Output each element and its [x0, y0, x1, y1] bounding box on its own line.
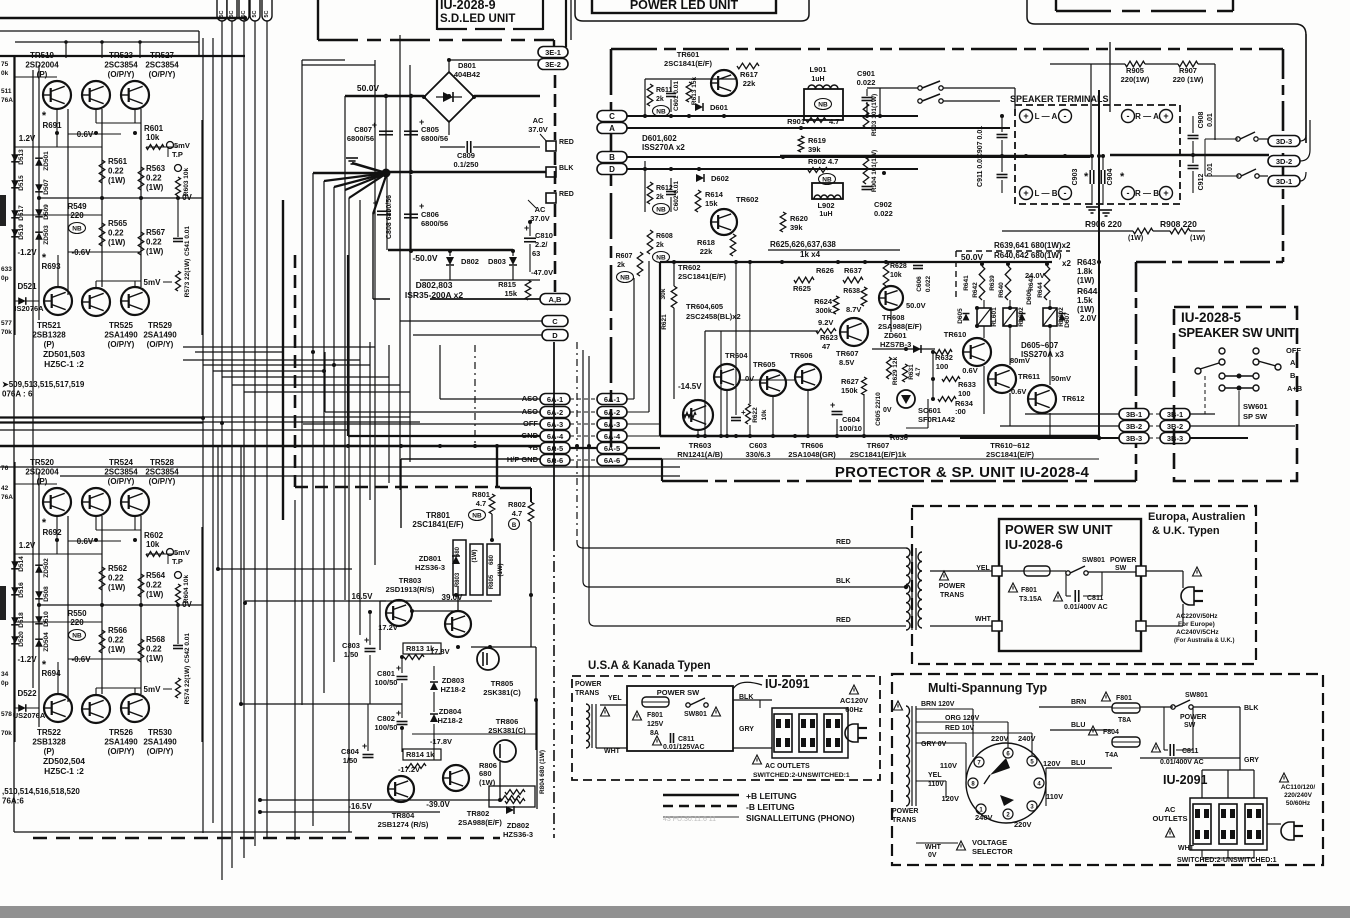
svg-text:3D-2: 3D-2 — [1276, 157, 1292, 166]
svg-text:GRY 0V: GRY 0V — [921, 741, 947, 748]
svg-text:(1W): (1W) — [108, 583, 126, 592]
svg-text:C803: C803 — [342, 641, 360, 650]
svg-text:2SK381(C): 2SK381(C) — [483, 688, 521, 697]
svg-text:R640: R640 — [998, 282, 1005, 298]
svg-text:(1W): (1W) — [146, 183, 164, 192]
svg-text:3D-1: 3D-1 — [1276, 177, 1292, 186]
svg-text:TR610: TR610 — [944, 330, 967, 339]
svg-text:R906 220: R906 220 — [1085, 219, 1122, 229]
svg-text:D517: D517 — [18, 205, 25, 221]
svg-text:2SC3854: 2SC3854 — [104, 61, 138, 70]
svg-text:0.22: 0.22 — [146, 581, 162, 590]
svg-text:R643: R643 — [1077, 258, 1097, 267]
svg-text:5mV: 5mV — [144, 278, 162, 287]
svg-text:ZD804: ZD804 — [439, 707, 462, 716]
svg-text:NB: NB — [656, 255, 666, 262]
svg-text:TR801: TR801 — [426, 511, 451, 520]
svg-text:POWER SW UNIT: POWER SW UNIT — [1005, 522, 1113, 537]
svg-text:TR603: TR603 — [689, 441, 712, 450]
svg-text:D514: D514 — [18, 556, 25, 572]
svg-text:ZD504: ZD504 — [43, 632, 50, 652]
svg-text:+: + — [364, 635, 369, 645]
svg-text:0p: 0p — [1, 680, 9, 687]
svg-text:R601: R601 — [144, 124, 164, 133]
svg-text:9.2V: 9.2V — [818, 318, 833, 327]
svg-text:SW601: SW601 — [1243, 402, 1268, 411]
svg-text:R692: R692 — [42, 528, 62, 537]
svg-text:-1.2V: -1.2V — [17, 248, 37, 257]
svg-text:C: C — [552, 317, 558, 326]
svg-text:R549: R549 — [67, 202, 87, 211]
svg-text:R — B: R — B — [1135, 189, 1159, 198]
svg-text:+: + — [373, 198, 378, 208]
svg-text:R562: R562 — [108, 564, 128, 573]
svg-text:50.0V: 50.0V — [906, 301, 926, 310]
svg-text:-39.0V: -39.0V — [426, 800, 450, 809]
svg-text:+: + — [830, 400, 835, 410]
svg-text:D518: D518 — [18, 612, 25, 628]
svg-text:R566: R566 — [108, 626, 128, 635]
svg-text:F804: F804 — [1103, 729, 1119, 736]
svg-text:R617: R617 — [740, 70, 758, 79]
svg-text:D801: D801 — [458, 61, 476, 70]
svg-text:*: * — [42, 659, 47, 671]
svg-text:R627: R627 — [841, 377, 859, 386]
svg-text:+B LEITUNG: +B LEITUNG — [746, 791, 797, 801]
svg-text:Multi-Spannung Typ: Multi-Spannung Typ — [928, 681, 1048, 695]
svg-text:POWER: POWER — [892, 808, 918, 815]
svg-text:R607: R607 — [616, 253, 633, 260]
svg-text:C605 22/10: C605 22/10 — [875, 392, 882, 426]
svg-text:RED: RED — [836, 539, 851, 546]
svg-text:1/50: 1/50 — [344, 650, 359, 659]
svg-text:R — A: R — A — [1135, 112, 1159, 121]
svg-text:(1W): (1W) — [472, 550, 478, 563]
svg-text:NB: NB — [472, 513, 482, 520]
svg-text:3B-2: 3B-2 — [1126, 422, 1142, 431]
svg-text:TR523: TR523 — [109, 51, 134, 60]
svg-text:R623: R623 — [820, 333, 838, 342]
svg-text:U.S.A & Kanada Typen: U.S.A & Kanada Typen — [588, 660, 711, 672]
svg-text:R561: R561 — [108, 157, 128, 166]
svg-text:1k x4: 1k x4 — [800, 250, 821, 259]
svg-text:0.01: 0.01 — [1207, 163, 1214, 177]
svg-text:2SC1841(E/F): 2SC1841(E/F) — [678, 272, 726, 281]
svg-text:L901: L901 — [809, 65, 826, 74]
svg-text:B: B — [512, 523, 517, 529]
svg-text:ZD802: ZD802 — [507, 821, 530, 830]
svg-text:50mV: 50mV — [1051, 374, 1071, 383]
svg-text:TR607: TR607 — [867, 441, 890, 450]
svg-text:OUTLETS: OUTLETS — [1153, 814, 1188, 823]
svg-text:R613 15k: R613 15k — [691, 77, 698, 106]
svg-text:C806: C806 — [421, 210, 439, 219]
svg-text:TR606: TR606 — [801, 441, 824, 450]
svg-text:+: + — [1163, 188, 1168, 198]
svg-text:1.5k: 1.5k — [1077, 296, 1093, 305]
svg-text:WHT: WHT — [604, 748, 621, 755]
svg-text:*: * — [1084, 171, 1089, 183]
svg-text:IU-2091: IU-2091 — [1163, 773, 1208, 787]
svg-text:1uH: 1uH — [819, 211, 832, 218]
svg-text:2SB1328: 2SB1328 — [32, 738, 66, 747]
svg-text:4.7: 4.7 — [915, 367, 922, 376]
svg-text:TR526: TR526 — [109, 728, 134, 737]
svg-text:TR610~612: TR610~612 — [990, 441, 1029, 450]
svg-text:R814 1k: R814 1k — [406, 750, 435, 759]
svg-text:(P): (P) — [44, 340, 55, 349]
svg-text:2k: 2k — [656, 96, 664, 103]
svg-text:0V: 0V — [883, 407, 892, 414]
svg-text:37.0V: 37.0V — [528, 125, 548, 134]
svg-text:(1W): (1W) — [146, 654, 164, 663]
svg-text:(O/P/Y): (O/P/Y) — [149, 477, 176, 486]
svg-text:220(1W): 220(1W) — [1121, 75, 1150, 84]
svg-text:-47.0V: -47.0V — [531, 268, 553, 277]
svg-text:D516: D516 — [18, 582, 25, 598]
svg-text:C904: C904 — [1107, 169, 1114, 186]
svg-text:C804: C804 — [341, 747, 360, 756]
svg-text:60Hz: 60Hz — [845, 705, 863, 714]
svg-text:RED: RED — [559, 139, 574, 146]
svg-text:TR602: TR602 — [678, 263, 701, 272]
svg-text:50.0V: 50.0V — [961, 252, 984, 262]
svg-text:D601,602: D601,602 — [642, 134, 677, 143]
svg-text:R629 12k: R629 12k — [892, 357, 899, 386]
svg-text:(O/P/Y): (O/P/Y) — [147, 747, 174, 756]
svg-text:R805: R805 — [489, 574, 495, 589]
svg-text:6A-4: 6A-4 — [604, 432, 621, 441]
svg-text:(1W): (1W) — [1128, 235, 1143, 242]
svg-text:2SC3854: 2SC3854 — [104, 468, 138, 477]
svg-text:IS2076A: IS2076A — [14, 304, 44, 313]
svg-text:HZ18-2: HZ18-2 — [437, 716, 462, 725]
svg-text:17.2V: 17.2V — [378, 623, 398, 632]
svg-text:R639,641 680(1W)x2: R639,641 680(1W)x2 — [994, 241, 1071, 250]
svg-text:TR525: TR525 — [109, 321, 134, 330]
svg-text:2SC3854: 2SC3854 — [145, 61, 179, 70]
svg-text:C907 0.01: C907 0.01 — [977, 126, 984, 158]
svg-text:2SC3854: 2SC3854 — [145, 468, 179, 477]
svg-text:+: + — [396, 663, 401, 673]
svg-text:WHT: WHT — [975, 616, 992, 623]
svg-text:0.22: 0.22 — [108, 167, 124, 176]
svg-text:TR604,605: TR604,605 — [686, 302, 723, 311]
svg-text:SWITCHED:2-UNSWITCHED:1: SWITCHED:2-UNSWITCHED:1 — [753, 772, 850, 779]
svg-text:OFF: OFF — [523, 419, 538, 428]
svg-text:6800/56: 6800/56 — [347, 134, 374, 143]
svg-text:220/240V: 220/240V — [1284, 792, 1312, 799]
svg-text:511: 511 — [1, 88, 12, 95]
svg-text:AC: AC — [535, 205, 546, 214]
svg-text:F801: F801 — [647, 712, 663, 719]
svg-text:HZS36-3: HZS36-3 — [415, 563, 445, 572]
svg-text:0.22: 0.22 — [108, 229, 124, 238]
svg-text:C541 0.01: C541 0.01 — [184, 226, 191, 256]
svg-text:D515: D515 — [18, 175, 25, 191]
svg-text:D802,803: D802,803 — [416, 280, 453, 290]
svg-text:-B LEITUNG: -B LEITUNG — [746, 802, 795, 812]
svg-text:34: 34 — [1, 671, 9, 678]
svg-text:2SD2004: 2SD2004 — [25, 61, 59, 70]
svg-text:C911 0.01: C911 0.01 — [977, 155, 984, 187]
svg-text:D513: D513 — [18, 149, 25, 165]
svg-text:D607: D607 — [1064, 312, 1071, 328]
svg-text:RED 10V: RED 10V — [945, 725, 975, 732]
svg-text:8A: 8A — [650, 730, 659, 737]
svg-text:R908 220: R908 220 — [1160, 219, 1197, 229]
svg-text:220V: 220V — [1014, 820, 1032, 829]
svg-text:43 FU:30:11:6 11: 43 FU:30:11:6 11 — [663, 816, 716, 823]
svg-text:D606: D606 — [1026, 289, 1033, 305]
svg-text:*: * — [42, 110, 47, 122]
svg-text:NB: NB — [72, 633, 82, 640]
svg-text:R804 680 (1W): R804 680 (1W) — [539, 750, 546, 794]
svg-text:5C: 5C — [252, 10, 258, 17]
svg-text:R622: R622 — [752, 407, 759, 423]
svg-text:BLK: BLK — [559, 165, 573, 172]
svg-text:ISR35-200A x2: ISR35-200A x2 — [405, 290, 464, 300]
svg-text:(1W): (1W) — [498, 564, 504, 577]
svg-text:100/50: 100/50 — [375, 678, 398, 687]
svg-text:TR602: TR602 — [736, 195, 759, 204]
svg-text:D510: D510 — [43, 611, 50, 627]
svg-text:BLU: BLU — [1071, 722, 1085, 729]
svg-text:ZD601: ZD601 — [884, 331, 907, 340]
svg-text:2SB1328: 2SB1328 — [32, 331, 66, 340]
svg-text:B: B — [1290, 371, 1296, 380]
svg-text:AC110/120/: AC110/120/ — [1281, 784, 1316, 791]
svg-text:C: C — [609, 112, 615, 121]
svg-text:C604: C604 — [842, 415, 861, 424]
svg-text:NB: NB — [620, 275, 630, 282]
svg-text:578: 578 — [1, 711, 12, 718]
svg-text:TRANS: TRANS — [940, 592, 964, 599]
svg-text:70k: 70k — [1, 329, 12, 336]
svg-text:0p: 0p — [1, 275, 9, 282]
svg-text:SF0R1A42: SF0R1A42 — [918, 415, 955, 424]
svg-text:0k: 0k — [1, 70, 9, 77]
svg-text:2.2/: 2.2/ — [535, 240, 548, 249]
svg-text:D520: D520 — [18, 631, 25, 647]
svg-text:-14.5V: -14.5V — [678, 382, 702, 391]
svg-text:TR530: TR530 — [148, 728, 173, 737]
svg-text:76A:6: 76A:6 — [2, 797, 24, 806]
svg-text:2k: 2k — [617, 262, 625, 269]
svg-text:YEL: YEL — [608, 695, 622, 702]
svg-text:120V: 120V — [1043, 759, 1061, 768]
svg-text:47: 47 — [822, 342, 830, 351]
svg-text:2SA988(E/F): 2SA988(E/F) — [878, 322, 922, 331]
svg-text:ORG 120V: ORG 120V — [945, 715, 980, 722]
svg-text:SIGNALLEITUNG (PHONO): SIGNALLEITUNG (PHONO) — [746, 813, 855, 823]
svg-text:D601: D601 — [710, 103, 728, 112]
svg-text:R604 10k: R604 10k — [183, 575, 190, 604]
svg-text:R625,626,637,638: R625,626,637,638 — [770, 240, 836, 249]
svg-text:R639: R639 — [989, 275, 996, 291]
svg-text:4.7: 4.7 — [476, 499, 486, 508]
svg-text:0.22: 0.22 — [146, 174, 162, 183]
svg-text:125V: 125V — [647, 721, 664, 728]
svg-text:R567: R567 — [146, 228, 166, 237]
svg-text:R626: R626 — [816, 266, 834, 275]
svg-text:110V: 110V — [1046, 792, 1063, 801]
svg-text:(1W): (1W) — [1190, 235, 1205, 242]
svg-text:TR604: TR604 — [725, 351, 748, 360]
svg-text:0.01/400V AC: 0.01/400V AC — [1064, 604, 1108, 611]
svg-text:2SD2004: 2SD2004 — [25, 468, 59, 477]
svg-text:(1W): (1W) — [108, 645, 126, 654]
svg-text:C902: C902 — [874, 200, 892, 209]
svg-text:-: - — [1064, 111, 1067, 121]
svg-text:-17.8V: -17.8V — [430, 737, 452, 746]
svg-text:C811: C811 — [1182, 748, 1198, 755]
svg-text:16.5V: 16.5V — [352, 592, 374, 601]
svg-text:+B: +B — [528, 443, 538, 452]
svg-text:110V: 110V — [940, 761, 957, 770]
svg-text:IU-2028-9: IU-2028-9 — [440, 0, 496, 12]
svg-text:AC: AC — [1165, 805, 1176, 814]
svg-text:2SA1490: 2SA1490 — [104, 331, 138, 340]
svg-text:0.1/250: 0.1/250 — [453, 160, 478, 169]
svg-text:2SC1841(E/F): 2SC1841(E/F) — [664, 59, 712, 68]
svg-text:3E-2: 3E-2 — [545, 60, 561, 69]
svg-text:6800/56: 6800/56 — [421, 134, 448, 143]
svg-text:6A-1: 6A-1 — [547, 395, 563, 404]
svg-text:5C: 5C — [229, 10, 235, 17]
svg-text:680: 680 — [479, 769, 492, 778]
svg-text:TR522: TR522 — [37, 728, 62, 737]
svg-text:D519: D519 — [18, 224, 25, 240]
svg-text:BLK: BLK — [836, 578, 850, 585]
svg-text:RED: RED — [836, 617, 851, 624]
svg-text:R802: R802 — [508, 500, 526, 509]
svg-text:*: * — [1120, 171, 1125, 183]
svg-text:A+B: A+B — [1287, 384, 1303, 393]
svg-text:R573 22(1W): R573 22(1W) — [184, 259, 191, 298]
svg-text:WHT: WHT — [925, 844, 942, 851]
svg-text:TR612: TR612 — [1062, 394, 1085, 403]
svg-text:3B-3: 3B-3 — [1126, 434, 1142, 443]
svg-text:ZD502,504: ZD502,504 — [43, 756, 85, 766]
svg-text:R564: R564 — [146, 571, 166, 580]
svg-text:C807: C807 — [354, 125, 372, 134]
svg-text:AC220V/50Hz: AC220V/50Hz — [1176, 613, 1218, 620]
svg-text:5C: 5C — [264, 10, 270, 17]
svg-text:GRY: GRY — [1244, 757, 1259, 764]
svg-text:BRN 120V: BRN 120V — [921, 701, 955, 708]
svg-text:0.22: 0.22 — [108, 636, 124, 645]
svg-text:R628: R628 — [890, 263, 907, 270]
svg-text:R801: R801 — [472, 490, 490, 499]
svg-text:SW801: SW801 — [1082, 557, 1105, 564]
svg-text:0.6V: 0.6V — [962, 366, 977, 375]
svg-text:2SC1841(E/F): 2SC1841(E/F) — [986, 450, 1034, 459]
svg-text:R618: R618 — [697, 238, 715, 247]
svg-text:SP SW: SP SW — [1243, 412, 1268, 421]
svg-text:ZD501: ZD501 — [43, 151, 50, 171]
svg-text:0.01: 0.01 — [1207, 113, 1214, 127]
svg-text:ASO: ASO — [522, 394, 538, 403]
svg-text:TR607: TR607 — [836, 349, 859, 358]
svg-text:100: 100 — [958, 389, 971, 398]
svg-text:POWER LED UNIT: POWER LED UNIT — [630, 0, 739, 12]
svg-text:D602: D602 — [711, 174, 729, 183]
svg-text:TRANS: TRANS — [575, 690, 599, 697]
svg-text:2SA1490: 2SA1490 — [143, 331, 177, 340]
svg-text:IU-2091: IU-2091 — [765, 677, 810, 691]
svg-text:22k: 22k — [743, 79, 756, 88]
svg-text:39k: 39k — [808, 145, 821, 154]
svg-text:A: A — [609, 124, 615, 133]
svg-text:SPEAKER TERMINALS: SPEAKER TERMINALS — [1010, 94, 1109, 104]
svg-text:D521: D521 — [17, 282, 37, 291]
svg-text:L — A: L — A — [1035, 112, 1058, 121]
svg-text:80mV: 80mV — [1010, 356, 1030, 365]
svg-text:TR528: TR528 — [150, 458, 175, 467]
svg-text:L902: L902 — [817, 201, 834, 210]
svg-text:R905: R905 — [1126, 66, 1144, 75]
svg-text:R803: R803 — [455, 572, 461, 587]
svg-text:ASO: ASO — [522, 407, 538, 416]
svg-text:76A: 76A — [1, 494, 13, 501]
svg-text:BLU: BLU — [1071, 760, 1085, 767]
svg-text:F801: F801 — [1021, 587, 1037, 594]
svg-text:22k: 22k — [700, 247, 713, 256]
svg-text:0.022: 0.022 — [857, 78, 876, 87]
svg-text:5mV: 5mV — [174, 141, 190, 150]
svg-text:R565: R565 — [108, 219, 128, 228]
svg-text:220V: 220V — [991, 734, 1009, 743]
svg-text:For Europe): For Europe) — [1178, 621, 1215, 628]
svg-text:HZS36-3: HZS36-3 — [503, 830, 533, 839]
svg-text:0.6V: 0.6V — [1011, 387, 1026, 396]
svg-text:WHT: WHT — [1178, 845, 1195, 852]
svg-text:100: 100 — [936, 362, 949, 371]
svg-text:-: - — [1127, 111, 1130, 121]
svg-text:R901: R901 — [787, 117, 805, 126]
svg-text:HZ5C-1 :2: HZ5C-1 :2 — [44, 359, 84, 369]
svg-text:L — B: L — B — [1035, 189, 1058, 198]
svg-text:B: B — [609, 153, 615, 162]
svg-text:3B-1: 3B-1 — [1126, 410, 1142, 419]
svg-text:-: - — [1127, 188, 1130, 198]
svg-text:D508: D508 — [43, 586, 50, 602]
svg-text:YEL: YEL — [928, 772, 942, 779]
svg-text:HZ18-2: HZ18-2 — [440, 685, 465, 694]
svg-text:R632: R632 — [935, 353, 953, 362]
svg-text:SW801: SW801 — [684, 711, 707, 718]
svg-text:ISS270A x2: ISS270A x2 — [642, 143, 685, 152]
svg-text:C601 0.01: C601 0.01 — [673, 81, 680, 111]
svg-text:4.7: 4.7 — [829, 117, 839, 126]
svg-text:10k: 10k — [146, 133, 160, 142]
svg-text:0.22: 0.22 — [146, 238, 162, 247]
svg-text:76A: 76A — [1, 97, 13, 104]
svg-text:C602 0.01: C602 0.01 — [673, 181, 680, 211]
svg-text:D509: D509 — [43, 204, 50, 220]
svg-text:TR529: TR529 — [148, 321, 173, 330]
svg-text:577: 577 — [1, 320, 12, 327]
svg-text:R691: R691 — [42, 121, 62, 130]
svg-text:R563: R563 — [146, 164, 166, 173]
svg-text:1uH: 1uH — [811, 76, 824, 83]
svg-text:R568: R568 — [146, 635, 166, 644]
svg-text:0V: 0V — [745, 374, 754, 383]
svg-text:10k: 10k — [146, 540, 160, 549]
svg-text:SELECTOR: SELECTOR — [972, 847, 1013, 856]
svg-text:5mV: 5mV — [144, 685, 162, 694]
